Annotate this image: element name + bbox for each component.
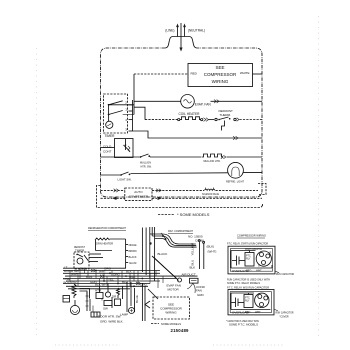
freezer wire bundle — [150, 234, 197, 247]
vertical resistor — [72, 284, 76, 298]
svg-text:REFRIG. LIGHT: REFRIG. LIGHT — [226, 180, 244, 184]
start capacitor 2 — [235, 298, 237, 308]
defrost therm sensing drop — [222, 121, 225, 131]
svg-text:SOME MODELS: SOME MODELS — [161, 322, 181, 326]
svg-text:REFRIGERATOR COMPARTMENT: REFRIGERATOR COMPARTMENT — [88, 226, 126, 230]
center vertical wires — [126, 282, 128, 312]
cabinet outline dashed rounded rect — [101, 48, 263, 197]
timer pin brace — [132, 100, 134, 131]
right hook bracket — [258, 184, 266, 195]
wire diagonal to compressor box — [148, 289, 158, 299]
auto compensator dashed row upper — [101, 189, 125, 191]
svg-text:WIRING: WIRING — [212, 79, 229, 84]
svg-text:WHT: WHT — [129, 275, 136, 279]
power cord conductor N — [184, 27, 186, 37]
svg-text:BOX: BOX — [64, 281, 70, 285]
svg-text:BLACK: BLACK — [158, 252, 168, 256]
power cord strain relief bump — [165, 37, 197, 49]
chevron connector — [204, 118, 209, 122]
svg-text:ORANGE: ORANGE — [129, 243, 137, 247]
svg-text:AIR DUCT: AIR DUCT — [182, 273, 196, 277]
svg-text:RUN CAPACITOR: RUN CAPACITOR — [276, 272, 295, 276]
wire pin4 drop to coil heater — [134, 107, 145, 119]
svg-text:COMPRESSOR WIRING: COMPRESSOR WIRING — [237, 234, 267, 238]
svg-text:YEL: YEL — [108, 277, 114, 281]
svg-text:RED: RED — [191, 72, 198, 76]
wire border to cold control — [101, 147, 115, 149]
svg-text:COLD: COLD — [103, 145, 112, 149]
svg-text:P.T.C. RELAY, START & RUN CAPA: P.T.C. RELAY, START & RUN CAPACITOR — [227, 242, 269, 246]
svg-text:BLK WHT: BLK WHT — [95, 283, 109, 287]
box 2 — [228, 290, 274, 315]
run capacitor label 2 — [274, 309, 278, 311]
svg-text:GRD: GRD — [197, 293, 205, 297]
svg-text:DOOR SW.: DOOR SW. — [64, 269, 80, 273]
auto compensator box — [125, 188, 152, 201]
svg-text:BRN: BRN — [86, 275, 92, 279]
see compressor wiring dashed box (bottom) — [153, 297, 190, 319]
svg-text:THERM.: THERM. — [220, 113, 232, 117]
svg-text:ORG: ORG — [104, 267, 112, 271]
svg-text:SEE: SEE — [215, 65, 224, 70]
power cord conductor middle — [180, 23, 182, 48]
timer wire to red drop — [109, 104, 134, 106]
harness rows — [63, 268, 198, 289]
mullion heater element — [202, 154, 223, 157]
svg-text:SOLENOID VALVE: SOLENOID VALVE — [202, 192, 219, 196]
compressor motor 2 — [255, 293, 269, 307]
svg-text:YELLOW: YELLOW — [129, 261, 137, 265]
svg-text:TIMER: TIMER — [75, 249, 85, 253]
svg-text:MULLION HTR.: MULLION HTR. — [204, 159, 221, 163]
svg-text:ORG: ORG — [140, 283, 148, 287]
L duct double line — [80, 289, 90, 299]
some models note — [158, 214, 174, 216]
some models dashed left extension — [97, 186, 263, 208]
svg-text:DOOR HTR. SW.: DOOR HTR. SW. — [98, 315, 121, 319]
faint perforation dots right — [318, 16, 320, 338]
svg-text:BLUE: BLUE — [135, 295, 139, 303]
pair to dashed box — [141, 283, 143, 321]
solenoid valve coil — [205, 189, 215, 190]
defrost timer dashed box — [74, 252, 89, 269]
svg-text:(NEUTRAL): (NEUTRAL) — [188, 29, 205, 33]
svg-text:R: R — [270, 252, 272, 255]
svg-text:RLY: RLY — [245, 300, 250, 303]
svg-text:P.T.C. RELAY W/O RUN CAPACITOR: P.T.C. RELAY W/O RUN CAPACITOR — [227, 285, 270, 289]
timer contacts — [108, 104, 110, 106]
wire evap row right — [211, 100, 263, 102]
relay 2 — [244, 295, 253, 308]
svg-text:FAN: FAN — [196, 289, 202, 293]
svg-text:LIGHT SW.: LIGHT SW. — [118, 178, 132, 182]
compressor motor 1 — [256, 251, 271, 266]
svg-text:BROWN: BROWN — [129, 249, 137, 253]
lower dashed row — [101, 197, 113, 199]
svg-text:LAMP: LAMP — [120, 313, 128, 317]
svg-text:WHT: WHT — [256, 270, 262, 273]
svg-text:MOTOR: MOTOR — [168, 288, 180, 292]
svg-text:AUTO: AUTO — [134, 190, 143, 194]
light switch — [101, 174, 121, 176]
junction cluster — [162, 235, 164, 237]
svg-text:COMPRESSOR: COMPRESSOR — [204, 72, 237, 77]
svg-text:(LINE): (LINE) — [165, 29, 174, 33]
svg-text:BLK: BLK — [80, 267, 86, 271]
junction dots — [95, 270, 143, 288]
solenoid row dashed — [152, 189, 204, 191]
svg-text:SOME P.T.C. MODELS: SOME P.T.C. MODELS — [229, 323, 258, 327]
connector chevron step row — [233, 136, 238, 139]
svg-text:TIMER: TIMER — [105, 134, 116, 138]
evap fan motor — [181, 95, 195, 109]
lower dashed row right part — [152, 197, 157, 199]
wire evap row left — [134, 100, 181, 102]
box2 wires — [231, 292, 254, 294]
row ties — [70, 271, 163, 289]
svg-text:CONT: CONT — [103, 150, 112, 154]
junction block left — [63, 296, 70, 303]
vertical bus lines — [142, 227, 154, 281]
wire red dashed to left — [134, 73, 188, 75]
diagonal wires — [152, 256, 177, 279]
angled switch — [145, 301, 150, 308]
svg-text:BLACK: BLACK — [129, 255, 137, 259]
svg-text:EVAP. FAN: EVAP. FAN — [195, 102, 212, 106]
svg-text:* SOME MODELS: * SOME MODELS — [177, 212, 210, 217]
svg-text:*COVER: *COVER — [280, 315, 290, 319]
timer motor — [106, 121, 113, 128]
wire white to border — [253, 73, 263, 75]
svg-text:WIRING: WIRING — [165, 311, 177, 315]
svg-text:YELLOW: YELLOW — [191, 243, 195, 256]
svg-text:MTR: MTR — [70, 280, 77, 284]
mid cluster components — [104, 301, 112, 306]
timer dashed box — [104, 94, 128, 133]
svg-text:SW: SW — [103, 307, 108, 311]
svg-text:OVERLOAD: OVERLOAD — [232, 311, 250, 315]
mullion heater row — [101, 156, 140, 158]
some models bottom — [151, 323, 159, 325]
svg-text:(BLK): (BLK) — [207, 245, 215, 249]
row connector chevrons — [91, 269, 96, 272]
box 1 — [228, 246, 275, 274]
svg-text:GRD. WIRE BLK.: GRD. WIRE BLK. — [100, 320, 124, 324]
wire pin3 step row — [133, 131, 263, 138]
svg-text:2150489: 2150489 — [171, 328, 190, 333]
svg-text:DRN HEATER: DRN HEATER — [96, 242, 114, 246]
svg-text:RLY: RLY — [246, 258, 251, 261]
svg-text:BLK: BLK — [190, 266, 196, 270]
power cord conductor L1 — [177, 27, 179, 37]
svg-text:OVERLOAD: OVERLOAD — [232, 269, 250, 273]
run capacitor label 1 — [275, 271, 279, 273]
svg-text:FRZ. COMPARTMENT: FRZ. COMPARTMENT — [168, 229, 193, 233]
svg-text:HTR. SW.: HTR. SW. — [141, 165, 152, 169]
double vertical element — [86, 292, 88, 311]
connector rect — [91, 312, 100, 317]
chevrons auto comp left — [114, 189, 119, 192]
chevrons auto comp right — [156, 189, 161, 192]
cold control box — [115, 139, 134, 158]
svg-text:WHT: WHT — [255, 311, 261, 314]
start capacitor 1 — [236, 256, 238, 266]
svg-text:COMPENSER: COMPENSER — [129, 195, 149, 199]
condenser verticals — [199, 242, 201, 269]
svg-text:WHITE: WHITE — [240, 71, 250, 75]
svg-text:(WHT): (WHT) — [208, 250, 217, 254]
drain heater resistor — [95, 238, 109, 240]
connector chevron evap row — [214, 100, 219, 103]
refrigerator light — [228, 162, 244, 178]
see compressor wiring box — [188, 64, 253, 87]
faint dotted bottom line — [55, 344, 285, 346]
red drop vertical — [133, 74, 135, 115]
relay 1 — [245, 253, 254, 267]
node bundle junction — [165, 238, 167, 240]
svg-text:HTR: HTR — [95, 289, 102, 293]
svg-text:BLK: BLK — [126, 270, 132, 274]
svg-text:COIL HEATER: COIL HEATER — [179, 112, 201, 116]
faint perforation dots left — [36, 48, 38, 335]
ground circle — [70, 305, 79, 314]
svg-text:ORG: ORG — [113, 272, 121, 276]
box1 wires — [231, 250, 256, 252]
